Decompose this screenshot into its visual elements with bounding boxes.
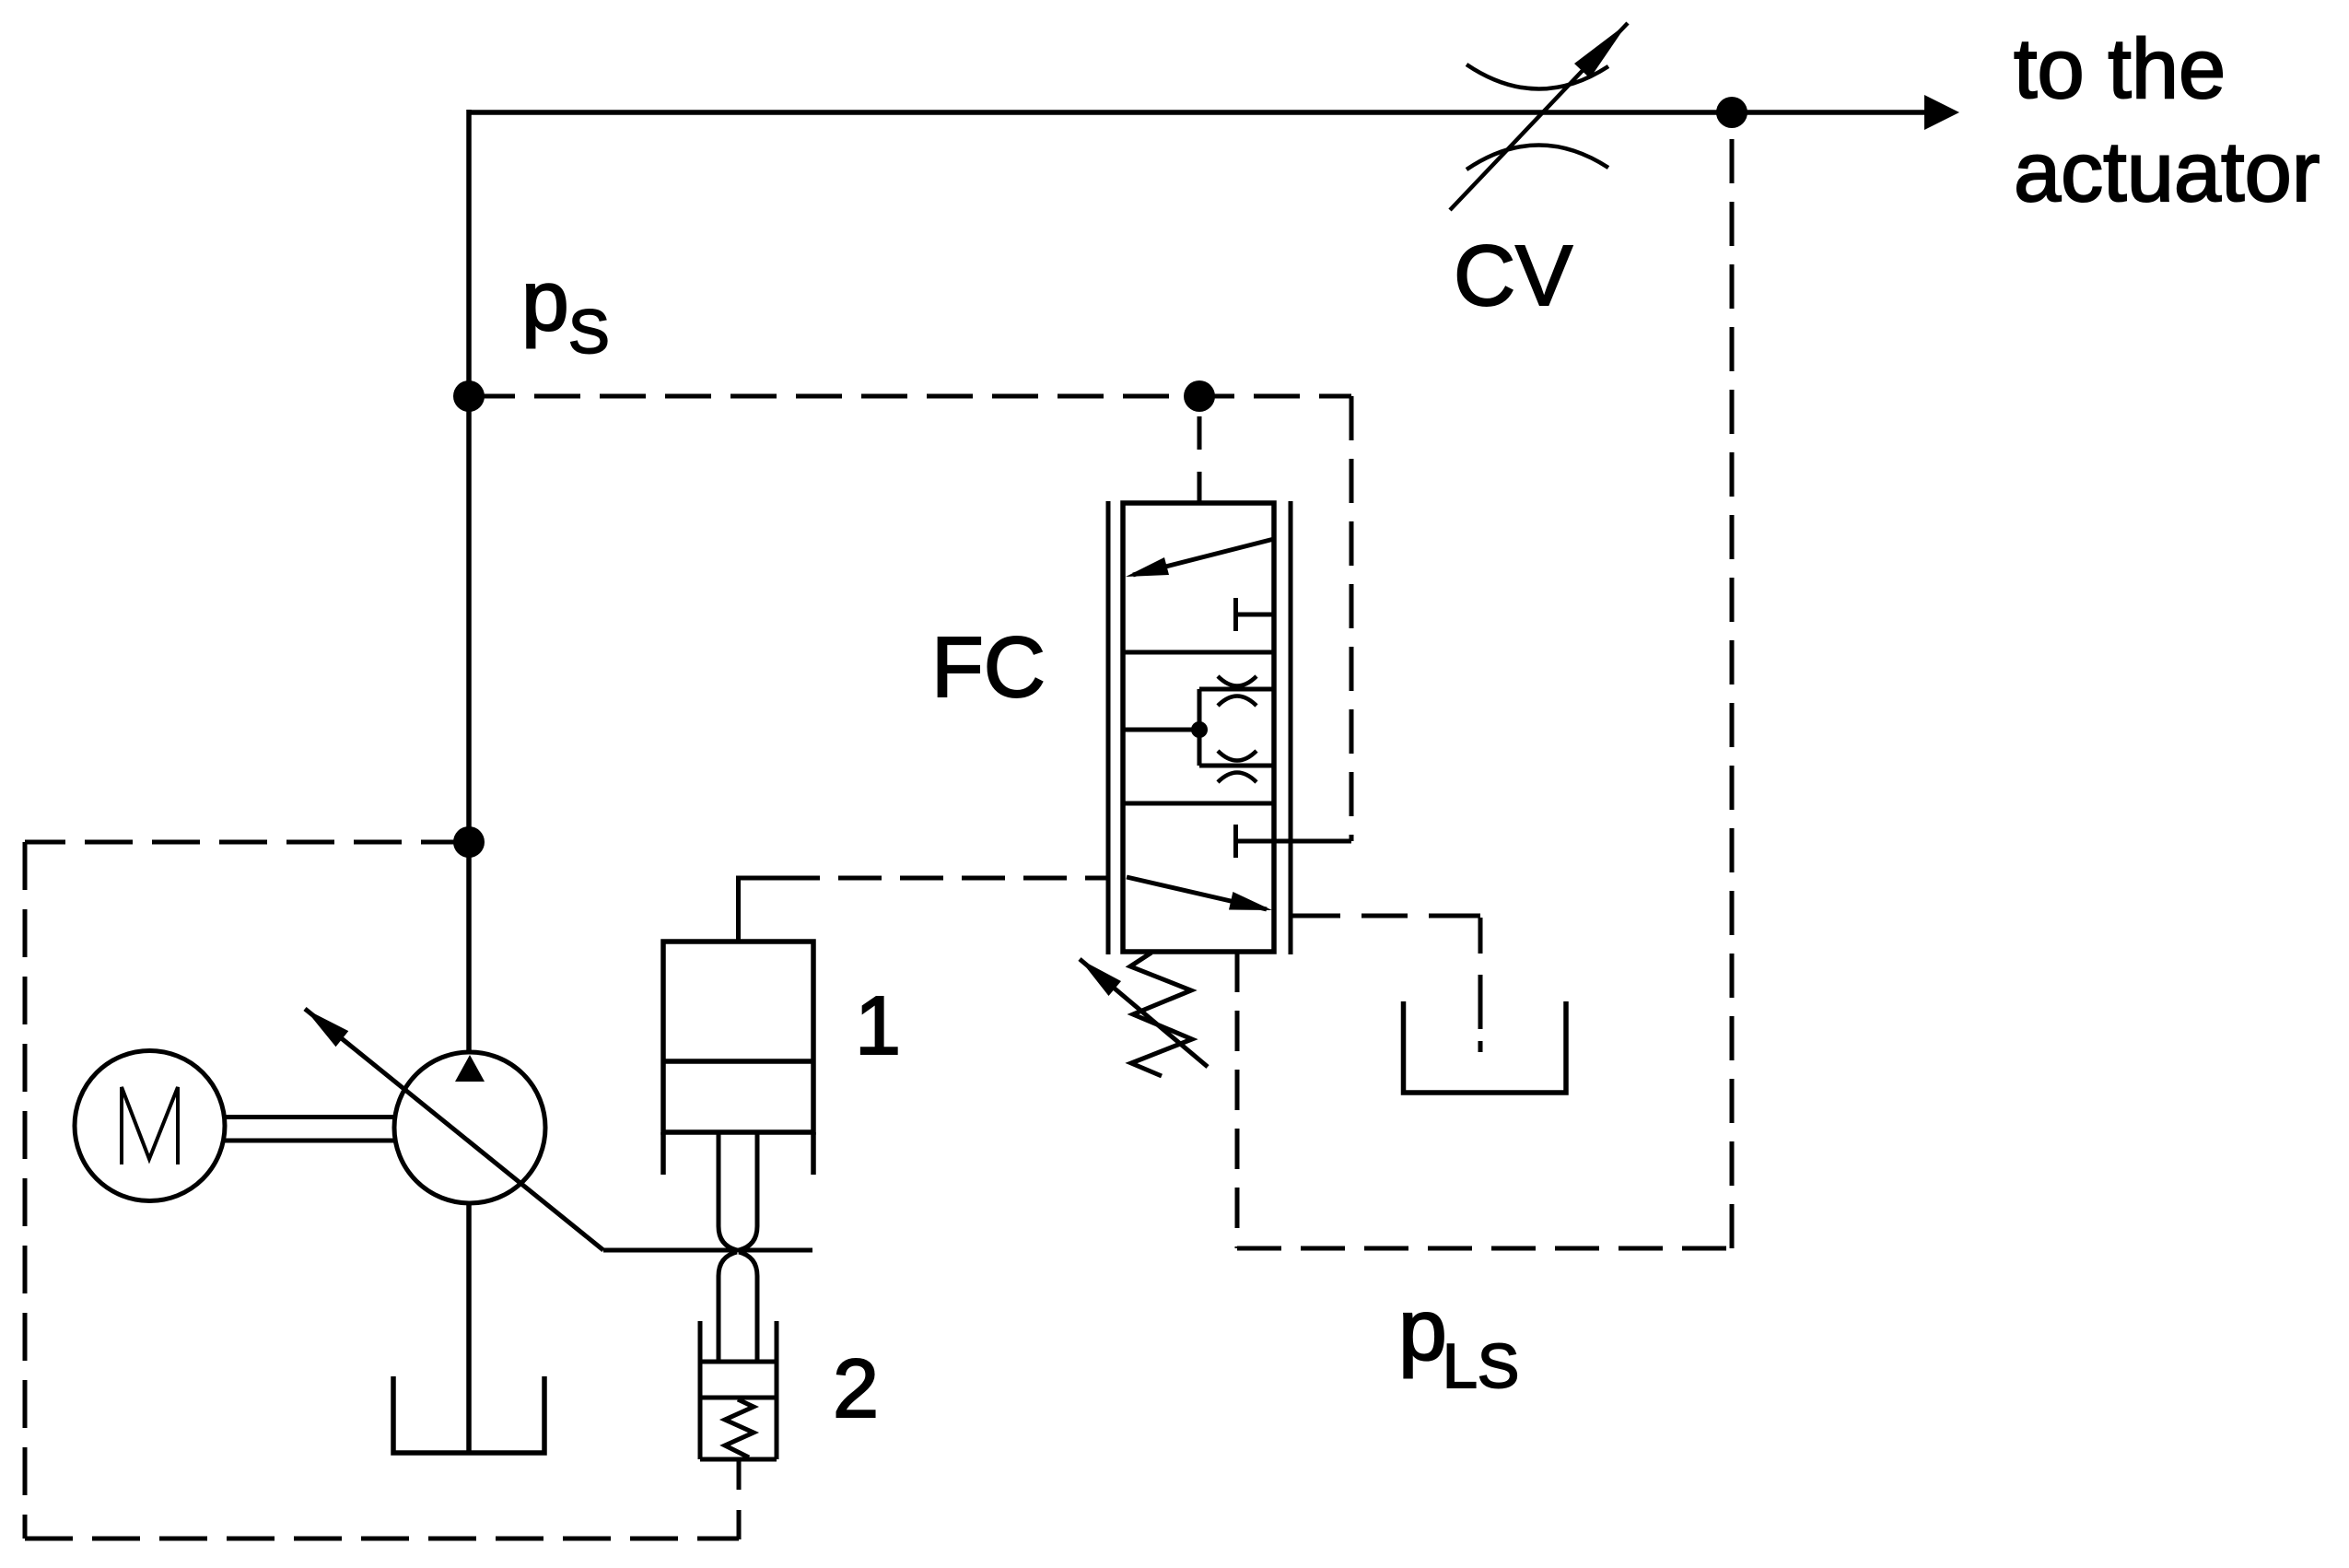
pump P: variable displacement pump circle bbox=[394, 1052, 545, 1203]
valve FC: left side stroke line bbox=[1106, 501, 1111, 954]
shaft: motor to pump coupling bbox=[225, 1117, 394, 1141]
valve FC: bottom position flow arrow bbox=[1127, 877, 1267, 909]
wire: FC drain port to tank dashed bbox=[1290, 914, 1480, 919]
rod: piston rod upper bbox=[719, 1132, 757, 1250]
cylinder 1: skirt walls bbox=[663, 1132, 813, 1175]
orifice: upper restriction arcs bbox=[1218, 676, 1256, 686]
svg-text:p: p bbox=[1398, 1281, 1447, 1379]
valve CV: variable orifice lower arc bbox=[1467, 145, 1608, 170]
wire: dashed connector from pS node to FC valve top bbox=[1198, 416, 1202, 505]
wire: pump control dashed frame top bbox=[25, 840, 469, 845]
wire: pump control dashed frame left bbox=[23, 842, 28, 1539]
node: pS pilot tap bbox=[453, 380, 485, 412]
orifice: lower restriction arcs bbox=[1218, 751, 1256, 761]
wire: valve 2 drain to dashed frame bbox=[737, 1459, 742, 1539]
wire: solid elbow from cylinder 1 top bbox=[739, 876, 780, 942]
svg-text:1: 1 bbox=[855, 980, 901, 1072]
valve FC: section divider upper bbox=[1123, 650, 1274, 655]
wire: pS pilot dashed vertical to FC right port bbox=[1350, 396, 1354, 841]
svg-text:2: 2 bbox=[833, 1343, 879, 1435]
valve CV: variable orifice upper arc bbox=[1467, 64, 1608, 89]
wire: displacement control link horizontal bbox=[603, 1248, 812, 1253]
node: pump control tap bbox=[453, 826, 485, 858]
valve 2: body lines bbox=[700, 1362, 777, 1459]
wire: pLS dashed line from FC bottom bbox=[1235, 952, 1240, 1248]
svg-text:actuator: actuator bbox=[2014, 125, 2320, 219]
wire: pS pilot dashed horizontal bbox=[469, 394, 1351, 399]
valve FC: section divider lower bbox=[1123, 802, 1274, 806]
valve FC: middle position feed line bbox=[1123, 728, 1199, 732]
node: junction on top line (LS line tap) bbox=[1716, 97, 1747, 128]
spring: valve 2 spring bbox=[725, 1399, 754, 1457]
pump P: outlet triangle bbox=[455, 1055, 485, 1082]
wire: pump suction line to tank bbox=[466, 1203, 472, 1453]
valve FC: body outline bbox=[1123, 503, 1274, 952]
cylinder 1: piston line bbox=[663, 1059, 813, 1064]
valve FC: right side stroke line bbox=[1289, 501, 1293, 954]
svg-text:FC: FC bbox=[931, 619, 1046, 715]
svg-text:p: p bbox=[521, 252, 569, 348]
node: FC pilot junction bbox=[1184, 380, 1215, 412]
valve 2: guide bracket bbox=[700, 1321, 777, 1459]
valve FC: middle position bypass bracket bbox=[1199, 689, 1274, 766]
valve CV: adjustment arrow bbox=[1450, 23, 1628, 210]
svg-text:LS: LS bbox=[1443, 1331, 1519, 1401]
wire: pLS dashed right vertical up to top line bbox=[1730, 128, 1735, 1248]
wire: supply line top horizontal to actuator bbox=[469, 110, 1926, 115]
wire: pLS dashed bottom horizontal bbox=[1237, 1246, 1732, 1251]
wire: main vertical supply line pS bbox=[466, 110, 472, 1053]
tank: LS drain reservoir bbox=[1404, 1001, 1567, 1093]
valve FC: bottom position blocked port T bbox=[1236, 825, 1352, 858]
spring: FC valve return spring bbox=[1130, 953, 1192, 1076]
valve FC: top position flow arrow bbox=[1133, 539, 1274, 575]
motor M: circle bbox=[75, 1051, 225, 1201]
arrowhead: to the actuator bbox=[1924, 95, 1959, 130]
wire: pump control dashed frame bottom bbox=[25, 1537, 739, 1541]
svg-text:CV: CV bbox=[1454, 228, 1572, 323]
wire: FC left pilot dashed from cylinder 1 bbox=[777, 876, 1108, 881]
rod: piston rod lower with ball joint bbox=[719, 1252, 757, 1362]
cylinder 1: control piston body bbox=[663, 942, 813, 1132]
valve FC: top position blocked port T bbox=[1236, 598, 1275, 631]
svg-text:S: S bbox=[568, 298, 610, 367]
svg-text:to the: to the bbox=[2014, 22, 2226, 116]
tank: main reservoir bbox=[393, 1376, 544, 1453]
arrow: pump variable displacement diagonal bbox=[305, 1009, 603, 1250]
node: middle position junction dot bbox=[1191, 721, 1208, 738]
arrow: FC spring adjustment bbox=[1080, 959, 1208, 1067]
motor M: letter bbox=[122, 1087, 178, 1164]
